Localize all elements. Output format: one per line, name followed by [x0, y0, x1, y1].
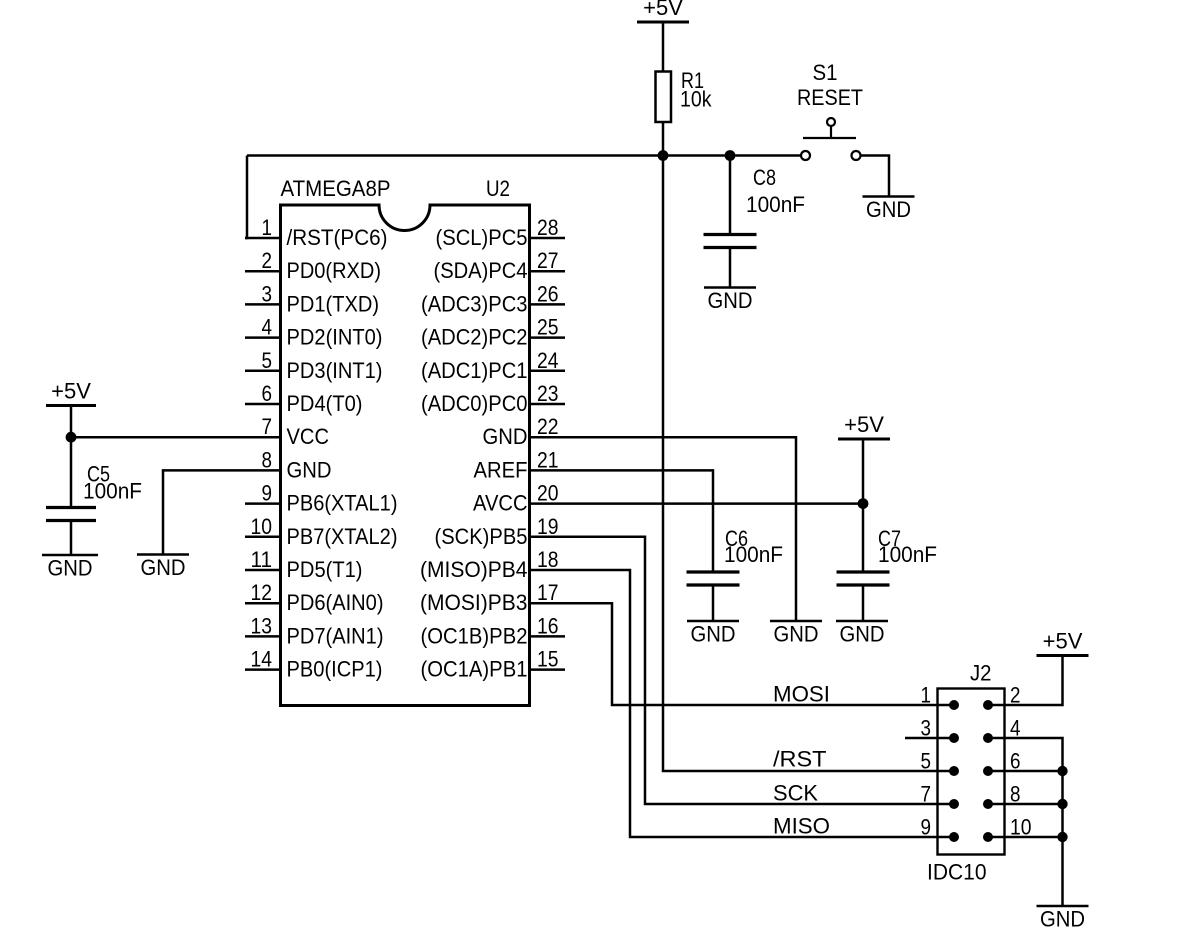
wire J2 pin 4 to GND rail [988, 738, 1063, 906]
capacitor C8 100nF [704, 156, 806, 288]
svg-text:100nF: 100nF [878, 542, 937, 567]
svg-text:+5V: +5V [844, 412, 884, 437]
junction AVCC node [858, 498, 869, 509]
junction C8//RST node [725, 150, 736, 161]
svg-text:(OC1B)PB2: (OC1B)PB2 [421, 623, 528, 648]
svg-text:U2: U2 [486, 176, 510, 201]
svg-text:26: 26 [537, 281, 559, 306]
svg-text:14: 14 [251, 647, 273, 672]
svg-text:18: 18 [537, 547, 559, 572]
wire R1 bottom to /RST node [662, 122, 665, 156]
svg-text:PB0(ICP1): PB0(ICP1) [287, 657, 383, 682]
U2 pin 27 (SDA)PC4 [434, 248, 566, 283]
svg-text:/RST(PC6): /RST(PC6) [287, 225, 388, 250]
svg-text:25: 25 [537, 315, 559, 340]
J2 pin 7 [921, 782, 960, 810]
junction R1//RST node [658, 150, 669, 161]
wire MOSI: U2 pin 17 to J2 pin 1 [565, 603, 954, 705]
wire U2 pin 8 to GND [163, 470, 245, 554]
power +5V (VCC supply) [46, 379, 96, 406]
svg-text:PD3(INT1): PD3(INT1) [287, 358, 383, 383]
U2 pin 6 PD4(T0) [245, 381, 363, 416]
U2 pin 24 (ADC1)PC1 [421, 348, 565, 383]
wire /RST to U2 pin 1 [245, 156, 247, 239]
svg-text:(OC1A)PB1: (OC1A)PB1 [421, 657, 528, 682]
wire +5V to AVCC node [862, 439, 865, 504]
U2 pin 28 (SCL)PC5 [436, 215, 566, 250]
svg-text:+5V: +5V [643, 0, 683, 20]
U2 pin 3 PD1(TXD) [245, 281, 379, 316]
power +5V (J2 pin 2) [1037, 629, 1089, 656]
J2 pin 6 [983, 749, 1021, 777]
svg-text:GND: GND [866, 197, 911, 222]
svg-text:GND: GND [774, 622, 819, 647]
svg-text:PB6(XTAL1): PB6(XTAL1) [287, 491, 398, 516]
IC U2 ATMEGA8P body [281, 205, 530, 706]
svg-text:11: 11 [251, 547, 273, 572]
junction J2 pin 10 node [1057, 832, 1067, 842]
svg-text:GND: GND [840, 622, 885, 647]
wire MISO: U2 pin 18 to J2 pin 9 [565, 570, 954, 837]
svg-text:PD4(T0): PD4(T0) [287, 391, 363, 416]
svg-text:2: 2 [262, 248, 273, 273]
U2 pin 16 (OC1B)PB2 [421, 613, 566, 648]
svg-text:/RST: /RST [773, 747, 827, 772]
wire J2 pin 3 stub [905, 737, 954, 740]
svg-text:16: 16 [537, 613, 559, 638]
svg-text:10: 10 [251, 514, 273, 539]
svg-text:(MISO)PB4: (MISO)PB4 [420, 557, 528, 582]
ground GND (C5) [42, 555, 98, 581]
wire J2 pin 6 to GND rail [988, 770, 1063, 773]
svg-text:(ADC3)PC3: (ADC3)PC3 [421, 291, 528, 316]
wire S1 to GND [861, 156, 889, 197]
svg-text:17: 17 [537, 580, 559, 605]
ground GND (C8) [704, 288, 756, 314]
U2 pin 10 PB7(XTAL2) [245, 514, 398, 549]
U2 pin 12 PD6(AIN0) [245, 580, 384, 615]
ground GND (U2 pin 22) [770, 621, 822, 647]
svg-text:1: 1 [921, 683, 932, 708]
svg-text:J2: J2 [970, 661, 992, 686]
svg-text:MISO: MISO [773, 814, 830, 839]
svg-text:MOSI: MOSI [773, 682, 830, 707]
U2 pin 5 PD3(INT1) [245, 348, 383, 383]
wire SCK: U2 pin 19 to J2 pin 7 [565, 537, 954, 804]
U2 pin 14 PB0(ICP1) [245, 647, 383, 682]
wire +5V to VCC pin 7 [71, 406, 245, 508]
svg-text:4: 4 [262, 315, 273, 340]
J2 pin 8 [983, 782, 1021, 810]
svg-text:GND: GND [691, 622, 736, 647]
wire U2 pin 20 AVCC to +5V [565, 502, 863, 505]
svg-text:SCK: SCK [773, 781, 818, 806]
U2 pin 4 PD2(INT0) [245, 315, 383, 350]
svg-text:7: 7 [921, 782, 932, 807]
svg-text:9: 9 [921, 815, 932, 840]
svg-text:PD1(TXD): PD1(TXD) [287, 291, 380, 316]
svg-text:13: 13 [251, 613, 273, 638]
svg-text:19: 19 [537, 514, 559, 539]
U2 pin 1 /RST(PC6) [245, 215, 388, 250]
ground GND (S1) [863, 197, 915, 223]
svg-text:ATMEGA8P: ATMEGA8P [281, 176, 391, 201]
J2 pin 10 [983, 815, 1032, 843]
wire /RST net horizontal [247, 154, 801, 157]
svg-text:5: 5 [262, 348, 273, 373]
svg-text:100nF: 100nF [83, 479, 142, 504]
svg-text:GND: GND [141, 555, 186, 580]
wire U2 pin 22 GND to ground [565, 437, 796, 621]
svg-text:S1: S1 [813, 60, 838, 85]
power +5V (R1 pull-up supply) [637, 0, 689, 22]
U2 pin 17 (MOSI)PB3 [420, 580, 565, 615]
svg-text:(SCK)PB5: (SCK)PB5 [435, 524, 528, 549]
U2 pin 15 (OC1A)PB1 [421, 647, 566, 682]
svg-text:AVCC: AVCC [473, 491, 528, 516]
ground GND (C6) [687, 621, 739, 647]
capacitor C7 100nF [837, 504, 938, 621]
svg-text:24: 24 [537, 348, 559, 373]
J2 pin 5 [921, 749, 960, 777]
U2 pin 23 (ADC0)PC0 [421, 381, 565, 416]
svg-text:7: 7 [262, 414, 273, 439]
svg-text:(SDA)PC4: (SDA)PC4 [434, 258, 528, 283]
svg-text:PD7(AIN1): PD7(AIN1) [287, 623, 384, 648]
power +5V (AVCC) [838, 412, 890, 439]
J2 pin 9 [921, 815, 960, 843]
svg-text:C8: C8 [753, 165, 776, 190]
svg-text:GND: GND [287, 457, 332, 482]
U2 pin 21 AREF [474, 447, 566, 482]
svg-text:23: 23 [537, 381, 559, 406]
ground GND (C7) [836, 621, 888, 647]
svg-text:GND: GND [483, 424, 528, 449]
U2 pin 25 (ADC2)PC2 [421, 315, 565, 350]
J2 pin 3 [921, 716, 960, 744]
svg-text:9: 9 [262, 481, 273, 506]
U2 pin 7 VCC [245, 414, 329, 449]
svg-text:PD0(RXD): PD0(RXD) [287, 258, 382, 283]
J2 pin 2 [983, 683, 1021, 711]
J2 pin 1 [921, 683, 960, 711]
svg-text:(ADC2)PC2: (ADC2)PC2 [421, 325, 528, 350]
U2 pin 22 GND [483, 414, 566, 449]
svg-text:GND: GND [48, 556, 93, 581]
wire J2 pin 10 to GND rail [988, 836, 1063, 839]
IC U2 title labels [281, 176, 511, 201]
U2 pin 19 (SCK)PB5 [435, 514, 566, 549]
svg-text:5: 5 [921, 749, 932, 774]
U2 pin 20 AVCC [473, 481, 565, 516]
svg-text:+5V: +5V [1043, 629, 1083, 654]
junction J2 pin 8 node [1057, 799, 1067, 809]
svg-text:6: 6 [262, 381, 273, 406]
U2 pin 11 PD5(T1) [245, 547, 363, 582]
U2 pin 8 GND [245, 447, 332, 482]
wire J2 pin 8 to GND rail [988, 803, 1063, 806]
svg-text:3: 3 [262, 281, 273, 306]
junction VCC node [66, 432, 77, 443]
connector J2 IDC10 body [938, 689, 1005, 855]
svg-text:RESET: RESET [797, 85, 863, 110]
svg-text:15: 15 [537, 647, 559, 672]
U2 pin 18 (MISO)PB4 [420, 547, 565, 582]
svg-text:20: 20 [537, 481, 559, 506]
svg-text:12: 12 [251, 580, 273, 605]
svg-text:PB7(XTAL2): PB7(XTAL2) [287, 524, 398, 549]
svg-text:100nF: 100nF [724, 542, 783, 567]
svg-text:IDC10: IDC10 [927, 860, 987, 885]
ground GND (J2) [1037, 906, 1089, 932]
svg-text:100nF: 100nF [746, 192, 805, 217]
J2 pin 4 [983, 716, 1021, 744]
svg-text:PD6(AIN0): PD6(AIN0) [287, 590, 384, 615]
svg-text:1: 1 [262, 215, 273, 240]
svg-text:VCC: VCC [287, 424, 330, 449]
svg-text:21: 21 [537, 447, 559, 472]
capacitor C6 100nF [687, 526, 784, 621]
wire +5V to R1 top [662, 22, 665, 72]
U2 pin 2 PD0(RXD) [245, 248, 381, 283]
svg-text:(MOSI)PB3: (MOSI)PB3 [420, 590, 528, 615]
capacitor C5 100nF [46, 462, 142, 556]
U2 pin 9 PB6(XTAL1) [245, 481, 398, 516]
svg-text:PD5(T1): PD5(T1) [287, 557, 363, 582]
svg-text:GND: GND [708, 288, 753, 313]
resistor R1 10k [656, 68, 713, 122]
U2 pin 13 PD7(AIN1) [245, 613, 384, 648]
svg-text:27: 27 [537, 248, 559, 273]
svg-text:22: 22 [537, 414, 559, 439]
svg-text:28: 28 [537, 215, 559, 240]
svg-text:8: 8 [262, 447, 273, 472]
svg-text:(SCL)PC5: (SCL)PC5 [436, 225, 528, 250]
U2 pin 26 (ADC3)PC3 [421, 281, 565, 316]
junction J2 pin 6 node [1057, 766, 1067, 776]
svg-text:AREF: AREF [474, 457, 528, 482]
wire U2 pin 21 AREF to C6 [565, 470, 713, 572]
svg-text:GND: GND [1040, 907, 1085, 932]
switch S1 RESET [797, 60, 863, 160]
svg-text:(ADC0)PC0: (ADC0)PC0 [421, 391, 528, 416]
svg-text:10k: 10k [680, 87, 712, 112]
ground GND (U2 pin 8) [137, 555, 189, 581]
svg-text:PD2(INT0): PD2(INT0) [287, 325, 383, 350]
wire +5V to J2 pin 2 [988, 656, 1063, 706]
wire /RST vertical to J2 pin 5 [663, 156, 954, 772]
svg-text:(ADC1)PC1: (ADC1)PC1 [421, 358, 528, 383]
svg-text:+5V: +5V [51, 379, 91, 404]
